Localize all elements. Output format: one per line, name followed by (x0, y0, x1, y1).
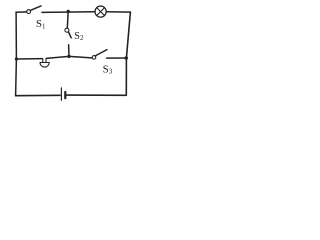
lamp L1 (95, 6, 106, 17)
wire right of S3 (107, 57, 127, 59)
wire top-left segment (16, 11, 27, 14)
wire left side (15, 12, 18, 95)
wire bottom-right segment (67, 94, 126, 96)
wire S2 branch upper (66, 11, 69, 28)
node top junction (67, 10, 70, 13)
switch S3 (92, 50, 107, 60)
wire middle-left segment (16, 58, 42, 60)
wire right side (126, 12, 130, 95)
wire bottom-left segment (16, 94, 60, 96)
node right-middle junction (124, 56, 128, 60)
wire top-right segment (106, 11, 130, 13)
wire middle-right segment (69, 56, 92, 58)
node left-middle junction (15, 57, 18, 60)
wire S2 branch lower stub (68, 45, 70, 57)
wire top-middle segment (42, 11, 95, 14)
battery B1 (61, 88, 65, 100)
bell (40, 59, 49, 68)
node S2 bottom junction (67, 55, 70, 58)
switch S1 (27, 6, 41, 14)
switch S2 (65, 28, 71, 38)
wire middle-center segment (46, 56, 69, 58)
